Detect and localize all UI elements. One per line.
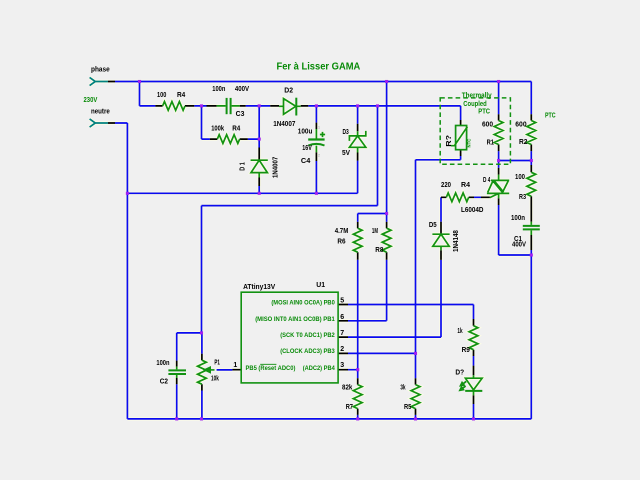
svg-text:1M: 1M (372, 228, 378, 235)
svg-text:P1: P1 (214, 360, 220, 367)
svg-text:L6004D: L6004D (461, 207, 484, 214)
svg-text:R4: R4 (232, 125, 240, 132)
svg-text:100u: 100u (298, 129, 313, 136)
svg-text:R3: R3 (519, 194, 526, 201)
svg-text:1N4007: 1N4007 (273, 157, 280, 178)
svg-text:1: 1 (318, 125, 320, 129)
svg-text:100n: 100n (212, 86, 225, 93)
svg-text:R4: R4 (177, 92, 185, 99)
svg-text:D 4: D 4 (483, 177, 490, 184)
svg-text:PTC: PTC (545, 112, 556, 119)
svg-text:(SCK T0 ADC1) PB2: (SCK T0 ADC1) PB2 (280, 332, 335, 339)
svg-text:2: 2 (340, 346, 344, 353)
svg-text:C4: C4 (301, 158, 311, 165)
svg-text:R8: R8 (375, 247, 383, 254)
svg-text:82k: 82k (342, 385, 352, 392)
svg-text:220: 220 (441, 182, 451, 189)
svg-text:C3: C3 (236, 111, 245, 118)
svg-text:16V: 16V (302, 145, 312, 152)
svg-text:ATtiny13V: ATtiny13V (243, 282, 275, 291)
svg-text:100n: 100n (511, 215, 525, 222)
svg-text:7: 7 (340, 330, 344, 337)
svg-text:4.7M: 4.7M (335, 228, 349, 235)
svg-text:600: 600 (482, 121, 493, 128)
svg-text:1: 1 (233, 362, 237, 369)
svg-text:(CLOCK ADC3) PB3: (CLOCK ADC3) PB3 (280, 348, 335, 355)
svg-text:1N4007: 1N4007 (273, 121, 295, 128)
svg-text:(MISO INT0 AIN1 OC0B) PB1: (MISO INT0 AIN1 OC0B) PB1 (255, 316, 335, 323)
svg-text:Coupled: Coupled (463, 101, 486, 108)
svg-text:3: 3 (340, 362, 344, 369)
svg-text:5V: 5V (342, 150, 350, 157)
svg-text:C2: C2 (160, 379, 168, 386)
svg-text:Thermally: Thermally (462, 92, 492, 99)
svg-text:400V: 400V (235, 86, 249, 93)
svg-text:R6: R6 (337, 239, 345, 246)
svg-text:phase: phase (91, 66, 110, 73)
svg-text:100: 100 (515, 174, 525, 181)
svg-text:R2: R2 (519, 139, 528, 146)
svg-text:2: 2 (318, 154, 320, 158)
svg-text:R9: R9 (462, 347, 470, 354)
svg-text:5: 5 (340, 298, 344, 305)
svg-text:6: 6 (340, 314, 344, 321)
svg-text:100n: 100n (156, 360, 169, 367)
svg-text:NTC: NTC (467, 139, 472, 148)
svg-text:U1: U1 (316, 282, 325, 289)
svg-text:Fer à Lisser GAMA: Fer à Lisser GAMA (277, 62, 361, 73)
svg-text:R?: R? (446, 135, 453, 147)
svg-text:(MOSI AIN0 OC0A) PB0: (MOSI AIN0 OC0A) PB0 (271, 300, 335, 307)
svg-text:100: 100 (157, 92, 166, 99)
svg-text:R5: R5 (404, 404, 411, 411)
svg-text:PTC: PTC (478, 108, 490, 115)
svg-text:D?: D? (455, 369, 464, 376)
svg-text:3k: 3k (400, 385, 405, 392)
svg-text:600: 600 (515, 121, 526, 128)
svg-text:1N4148: 1N4148 (453, 230, 460, 252)
svg-text:(ADC2) PB4: (ADC2) PB4 (303, 365, 335, 372)
svg-text:R1: R1 (487, 139, 494, 146)
svg-text:R7: R7 (346, 404, 353, 411)
svg-text:400V: 400V (512, 241, 526, 248)
svg-text:PB5 (Reset ADC0): PB5 (Reset ADC0) (246, 365, 296, 372)
svg-text:230V: 230V (84, 97, 98, 104)
svg-text:D5: D5 (429, 222, 437, 229)
svg-text:D 1: D 1 (240, 162, 247, 171)
svg-text:100k: 100k (211, 125, 224, 132)
svg-text:10k: 10k (211, 375, 219, 382)
svg-text:1k: 1k (457, 328, 462, 335)
svg-text:D3: D3 (343, 129, 349, 136)
svg-text:D2: D2 (284, 88, 293, 95)
svg-text:R4: R4 (461, 182, 470, 189)
svg-text:neutre: neutre (91, 109, 110, 116)
